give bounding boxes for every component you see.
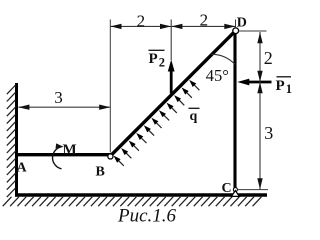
svg-text:2: 2 <box>137 12 146 31</box>
extension line right of D <box>239 30 267 32</box>
svg-text:3: 3 <box>264 123 273 143</box>
force P2 label <box>149 50 166 69</box>
node D label <box>237 16 247 31</box>
dimension 2 (right, D to P1 line) <box>257 32 273 82</box>
member D-C (vertical column) <box>233 31 236 195</box>
dimension 3 (right, P1 line to ground) <box>257 82 273 189</box>
dimension 3 (left, wall to B) <box>18 88 110 110</box>
beam A-B (horizontal member) <box>15 153 111 156</box>
svg-text:2: 2 <box>200 11 209 30</box>
45-degree label <box>206 66 229 85</box>
wall support (left fixed wall) <box>15 83 18 197</box>
svg-text:Рис.1.6: Рис.1.6 <box>117 206 177 227</box>
45-degree angle arc at D <box>211 54 235 64</box>
ground hatching <box>3 197 262 206</box>
force P2 arrow (vertical, upward) <box>168 20 175 94</box>
svg-text:45°: 45° <box>206 66 229 85</box>
svg-text:D: D <box>237 16 247 31</box>
svg-text:M: M <box>63 142 77 158</box>
wall hatching <box>7 85 16 197</box>
moment M label <box>63 142 77 158</box>
svg-text:2: 2 <box>159 56 165 70</box>
distributed load q arrows (perpendicular to incline) <box>114 80 200 166</box>
force P1 label <box>276 77 293 96</box>
dimension 2 (top-left, B to P2 line) <box>110 12 171 31</box>
extension line above D <box>235 20 237 28</box>
svg-text:2: 2 <box>264 48 273 68</box>
force P1 arrow (horizontal, leftward) <box>237 79 271 86</box>
node C label <box>222 181 232 196</box>
node B label <box>96 165 105 180</box>
node C pin support (circle + triangle) <box>231 188 239 197</box>
svg-text:P: P <box>276 78 285 94</box>
ground line <box>15 193 267 196</box>
svg-text:1: 1 <box>286 82 292 96</box>
distributed load q label <box>189 108 200 124</box>
node D (pin circle) <box>233 28 239 34</box>
svg-text:C: C <box>222 181 232 196</box>
extension line right of C (bottom) <box>238 189 268 191</box>
node B (pin circle) <box>108 154 113 159</box>
dimension 2 (top-right, P2 line to D) <box>171 11 235 30</box>
caption Ris.1.6 <box>117 206 177 227</box>
svg-text:B: B <box>96 165 105 180</box>
node A label <box>17 161 28 176</box>
extension line at B (x=110) <box>109 20 111 153</box>
svg-text:A: A <box>17 161 28 176</box>
svg-text:P: P <box>149 51 158 67</box>
member B-D (45-degree incline) <box>110 31 236 157</box>
svg-text:q: q <box>190 109 198 124</box>
moment M arc arrow <box>53 143 64 168</box>
svg-text:3: 3 <box>54 88 63 107</box>
